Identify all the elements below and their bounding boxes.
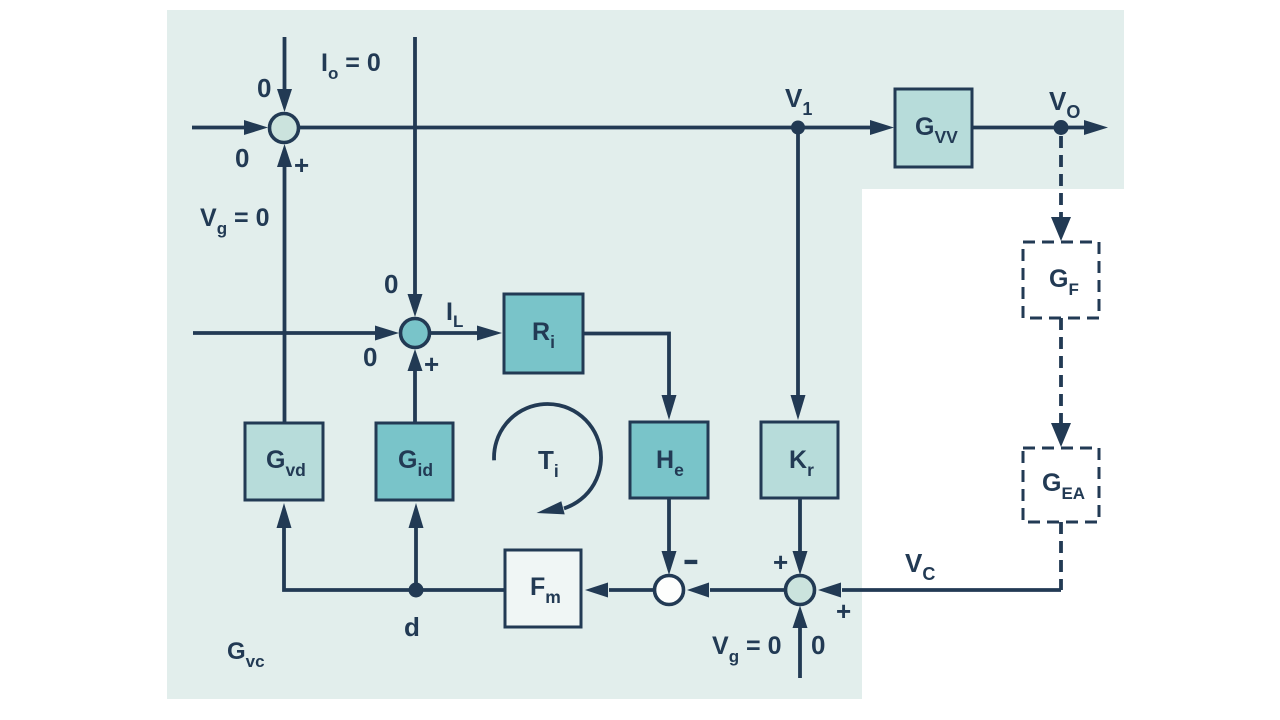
block GF (dashed): [1023, 242, 1099, 318]
wire: Vc line left into S4 (solid): [818, 583, 1061, 598]
wire: Ri output right then down into He: [583, 334, 677, 421]
svg-text:0: 0: [384, 269, 398, 299]
block Gvv: [895, 89, 972, 167]
wire: input line into summing node S1 (left, y=127.5): [192, 120, 268, 135]
wire: d branch up into Gid: [409, 503, 424, 590]
svg-text:VC: VC: [905, 548, 935, 584]
wire: Gvv output to Vo and out arrow: [972, 120, 1108, 135]
svg-text:0: 0: [363, 342, 377, 372]
node Vo junction dot: [1054, 120, 1069, 135]
svg-text:+: +: [424, 349, 439, 379]
wire: second input line into S2 (left, y=333): [193, 326, 399, 341]
block Fm: [505, 550, 581, 627]
block Gid: [376, 423, 453, 500]
svg-text:0: 0: [235, 143, 249, 173]
svg-text:d: d: [404, 612, 420, 642]
Ti loop arrow (clockwise arc): [494, 404, 601, 514]
svg-text:0: 0: [811, 630, 825, 660]
wire: vertical Io=0 drop into S1 from top (x=284.5): [277, 37, 292, 112]
wire: Gid output up into S2 from below: [408, 349, 423, 423]
wire: dashed drop from Vo node to GF: [1051, 136, 1071, 241]
block Ri: [504, 294, 583, 373]
node V1 junction dot: [791, 121, 805, 135]
wire: S1 output to Gvv (y=127.5): [299, 120, 894, 135]
wire: Kr output down into S4: [793, 498, 808, 575]
svg-text:0: 0: [257, 73, 271, 103]
label minus (at S3): [685, 560, 698, 564]
summing node S3 (white): [655, 576, 684, 605]
wire: S3 output left into Fm: [585, 583, 654, 598]
wire: vertical Io=0 line into S2 from top (x=415): [408, 37, 423, 317]
wire: V1 branch down into Kr: [791, 128, 806, 421]
wire: Gvd output up into S1 from below: [277, 144, 292, 423]
wire: dashed GEA down to Vc corner: [1059, 522, 1063, 590]
svg-text:+: +: [836, 596, 851, 626]
background panel (L-shaped light teal): [167, 10, 1124, 699]
summing node S1: [270, 114, 299, 143]
summing node S2: [401, 319, 430, 348]
wire: Vg=0 input up into S4 from below: [793, 606, 808, 679]
node d junction dot: [409, 583, 424, 598]
svg-text:+: +: [294, 150, 309, 180]
svg-text:+: +: [773, 547, 788, 577]
block He: [630, 422, 708, 498]
block Kr: [761, 422, 838, 498]
block Gvd: [245, 423, 323, 500]
wire: He output down into S3: [662, 498, 677, 575]
block GEA (dashed): [1023, 448, 1099, 522]
summing node S4 (Vc sum): [786, 576, 815, 605]
wire: S4 output left into S3: [687, 583, 785, 598]
wire: Fm output left along d-line then up into Gvd: [277, 503, 506, 590]
wire: S2 output IL into Ri: [430, 326, 502, 341]
wire: dashed GF to GEA: [1051, 318, 1071, 447]
